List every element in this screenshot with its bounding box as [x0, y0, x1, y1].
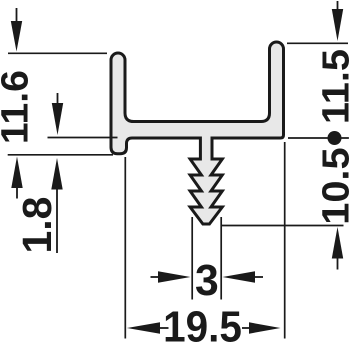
extension line E6 (spigot bottom) — [221, 225, 344, 227]
extension line E7 (19.5 left) — [124, 157, 126, 339]
arrow A7 (3 left, pointing right) — [151, 276, 160, 278]
arrow A5 (11.5 top, pointing down) — [337, 1, 339, 10]
svg-text:10.5: 10.5 — [315, 147, 350, 224]
dot (shared dimension point of 11.5 / 10.5) — [328, 131, 342, 145]
arrow A8 (3 right, pointing left) — [223, 271, 256, 282]
arrow A10 (19.5 right, pointing right) — [242, 327, 250, 329]
extension line E4 (right wall top) — [287, 42, 348, 44]
extension line E1 (left wall top) — [8, 52, 107, 54]
arrow A3 (1.8 top, pointing down) — [57, 93, 59, 104]
svg-text:1.8: 1.8 — [14, 197, 60, 254]
arrow A9 (19.5 left, pointing left) — [127, 322, 160, 333]
arrow A2 (11.6 bottom, pointing up) — [11, 157, 22, 189]
extension line E2 (left web bottom) — [48, 137, 118, 139]
arrow A1 (11.6 top, pointing down) — [16, 8, 18, 22]
svg-text:11.6: 11.6 — [0, 70, 36, 144]
arrow A4 (1.8 bottom, pointing up) — [51, 158, 62, 190]
extension line E5 (right web bottom, to dot) — [288, 137, 349, 139]
extension line E8 (19.5 right) — [284, 142, 286, 339]
svg-text:19.5: 19.5 — [163, 302, 242, 343]
extension line E10 (3 right) — [220, 217, 222, 300]
extension line E3 (left foot bottom) — [8, 154, 113, 156]
svg-text:3: 3 — [195, 256, 219, 305]
arrow A6 (10.5 bottom, pointing up) — [332, 227, 343, 259]
svg-text:11.5: 11.5 — [315, 49, 350, 124]
profile cross-section (aluminium glazing channel with barbed spigot) — [111, 42, 284, 224]
extension line E9 (3 left) — [191, 217, 193, 300]
